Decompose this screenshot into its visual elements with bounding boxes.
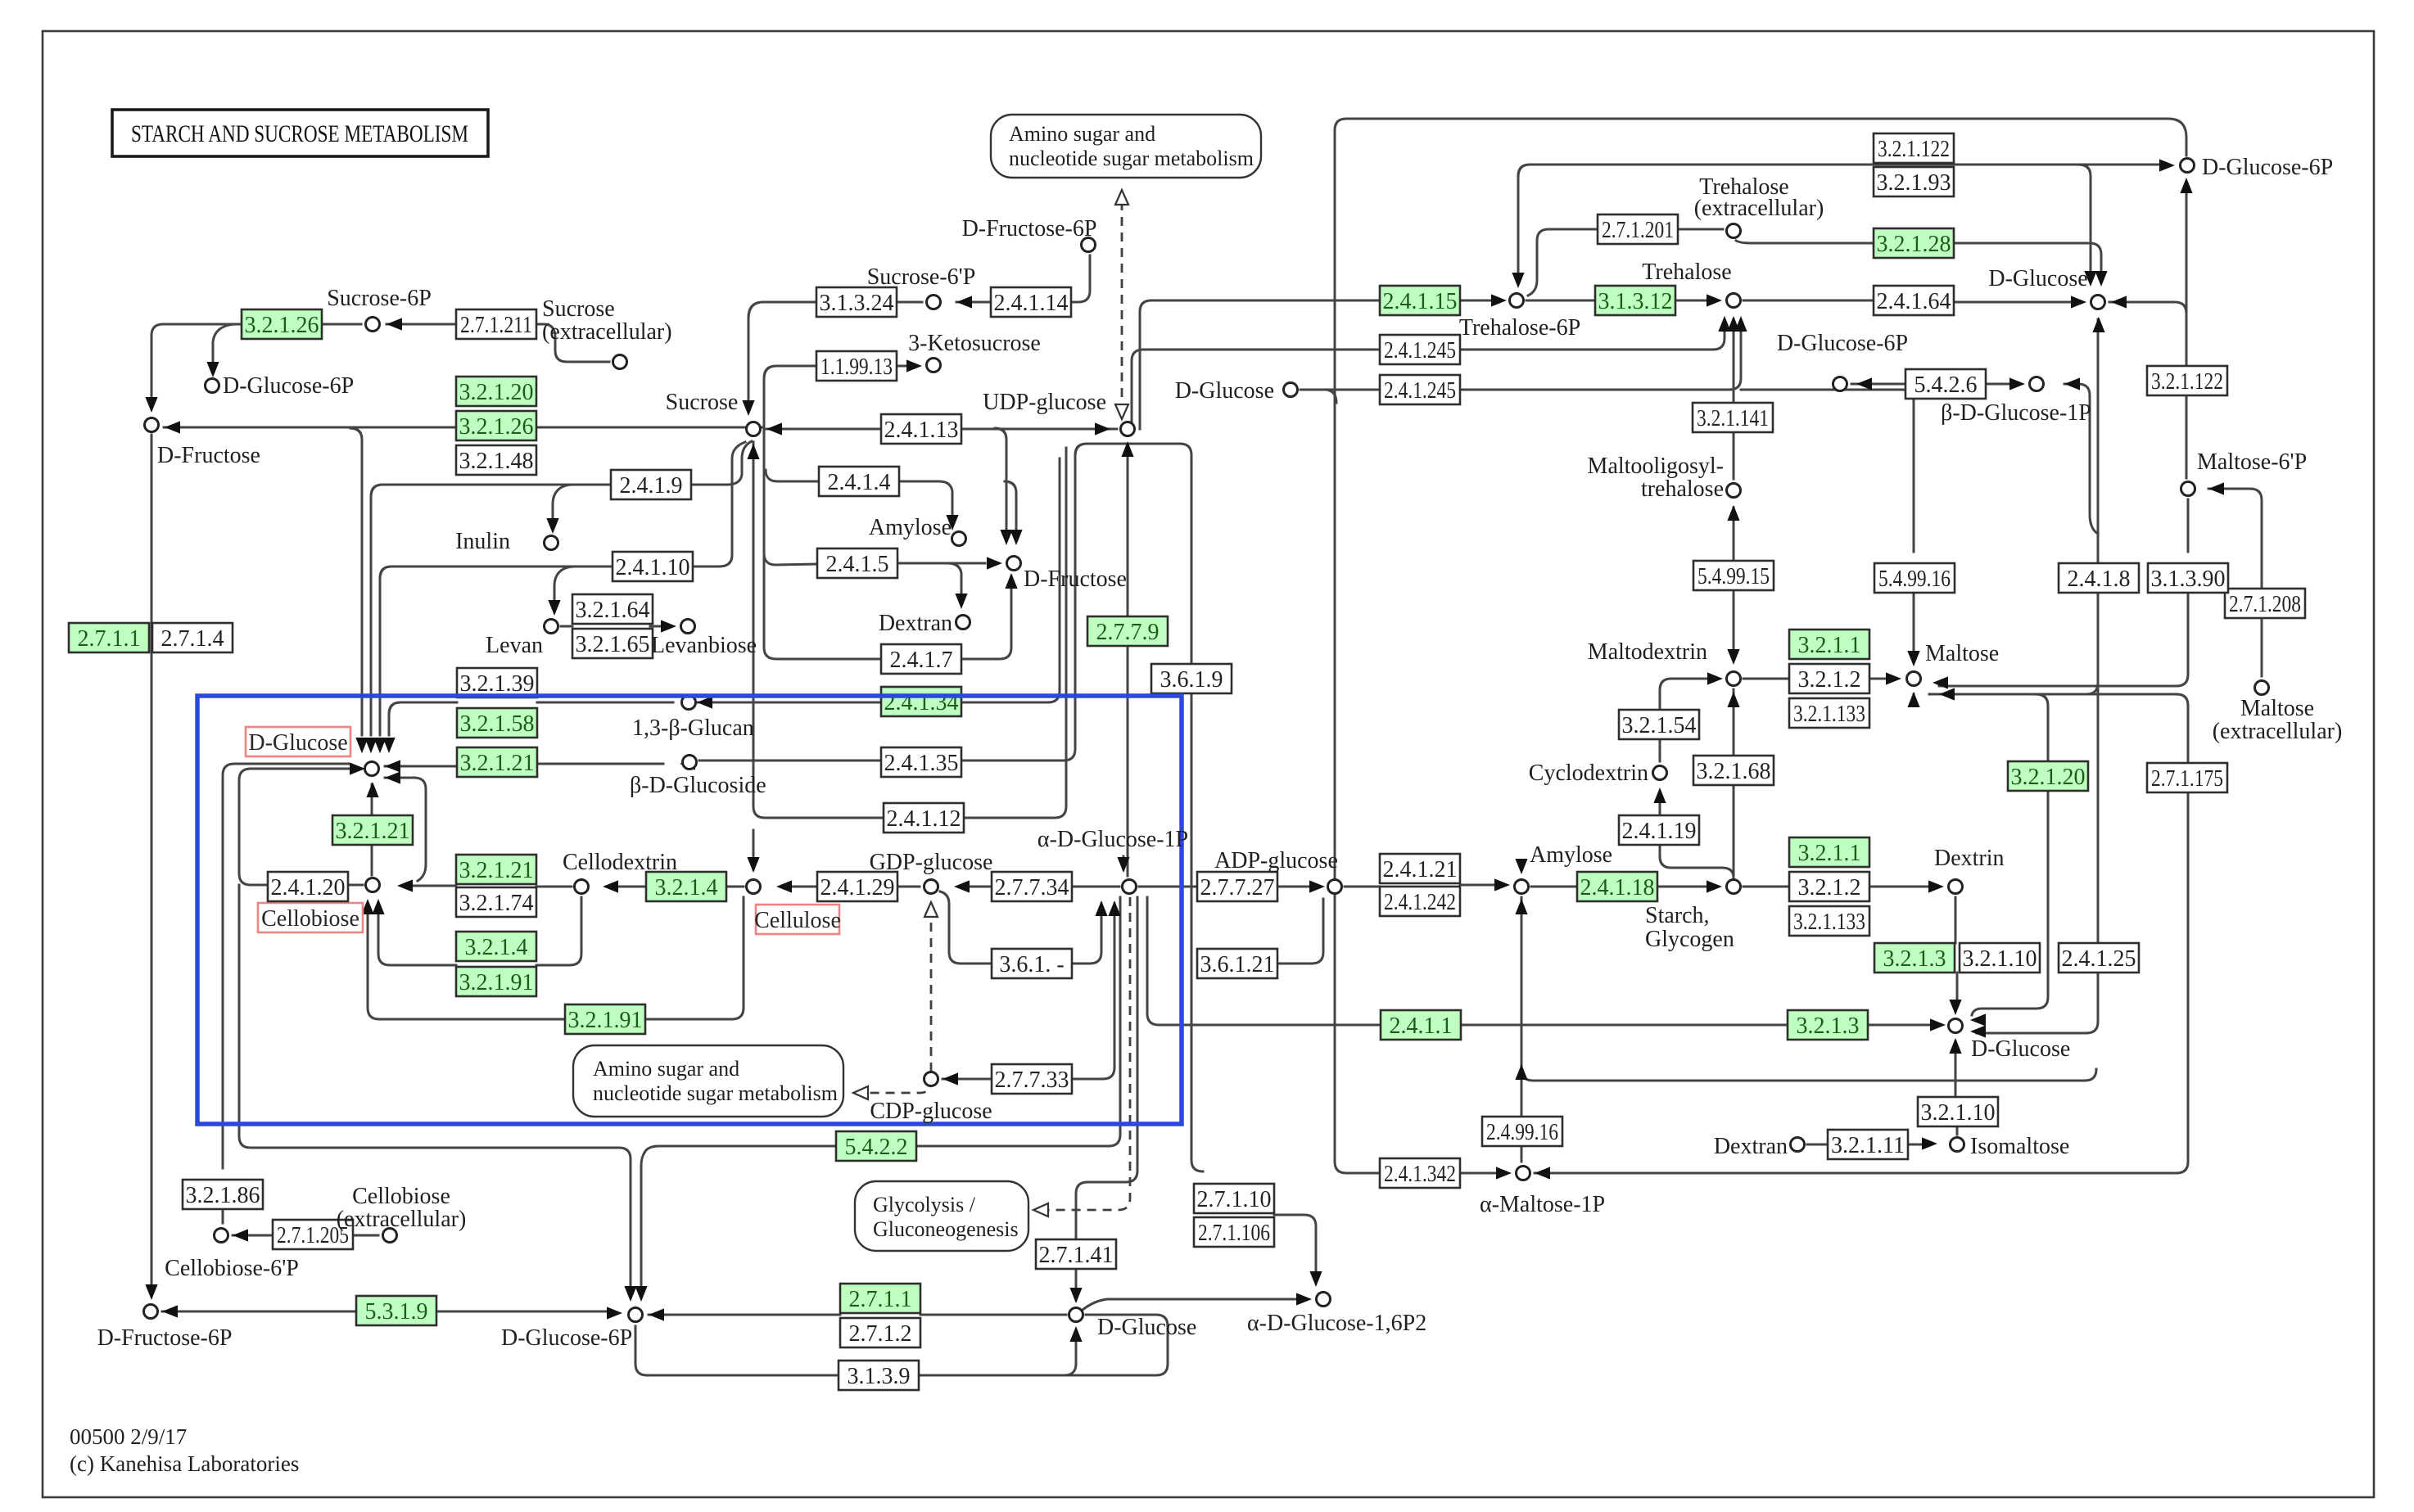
svg-text:5.3.1.9: 5.3.1.9: [365, 1299, 428, 1325]
wire: [1869, 678, 1885, 680]
compound node: [2255, 681, 2269, 695]
compound label box (red): [258, 903, 363, 932]
enzyme box 3.6.1.21: [1197, 949, 1277, 978]
svg-text:3.2.1.2: 3.2.1.2: [1798, 667, 1861, 693]
compound node: [1123, 880, 1137, 894]
pathway link box: [991, 115, 1261, 178]
svg-text:3.2.1.2: 3.2.1.2: [1798, 875, 1861, 900]
svg-text:D-Glucose-6P: D-Glucose-6P: [223, 373, 354, 399]
svg-text:2.4.1.13: 2.4.1.13: [884, 417, 959, 443]
arrowhead: [548, 600, 560, 616]
wire: [956, 301, 991, 304]
arrowhead: [1933, 676, 1948, 688]
svg-text:Dextran: Dextran: [879, 611, 952, 636]
enzyme box 3.6.1. -: [992, 949, 1072, 978]
wire: [2097, 319, 2100, 563]
wire: [1460, 329, 1725, 350]
wire: [1346, 1172, 1380, 1175]
arrowhead: [661, 620, 676, 632]
enzyme box 3.2.1.86: [183, 1180, 263, 1209]
arrowhead: [624, 1286, 636, 1302]
svg-text:3.2.1.1: 3.2.1.1: [1798, 841, 1861, 866]
arrowhead: [747, 444, 759, 459]
enzyme box 3.2.1.91: [565, 1004, 645, 1034]
svg-text:2.4.1.242: 2.4.1.242: [1384, 890, 1456, 915]
svg-text:D-Fructose-6P: D-Fructose-6P: [97, 1325, 233, 1351]
wire: [213, 324, 234, 365]
arrowhead: [364, 738, 377, 753]
svg-text:Amylose: Amylose: [869, 515, 952, 540]
wire: [389, 702, 457, 714]
svg-text:3.2.1.48: 3.2.1.48: [459, 449, 534, 474]
compound node: [144, 1305, 158, 1319]
wire: [764, 366, 816, 378]
enzyme box 2.4.1.342: [1380, 1158, 1460, 1188]
arrowhead: [1515, 1064, 1527, 1080]
enzyme box 3.2.1.3: [1874, 943, 1955, 973]
compound node: [1727, 880, 1741, 894]
wire: [2086, 593, 2098, 694]
arrowhead: [1907, 651, 1919, 666]
compound node: [952, 532, 966, 546]
arrowhead: [1949, 1038, 1961, 1054]
wire: [609, 886, 646, 888]
wire: [726, 886, 744, 888]
enzyme box 3.2.1.1: [1789, 630, 1869, 659]
wire: [378, 904, 456, 965]
compound node: [383, 1229, 397, 1243]
arrowhead: [1069, 1326, 1082, 1342]
wire: [691, 441, 752, 485]
wire: [239, 885, 631, 1287]
arrowhead: [2009, 377, 2025, 390]
enzyme box 2.7.1.211: [456, 309, 536, 339]
compound node: [1082, 238, 1096, 252]
svg-text:Inulin: Inulin: [455, 529, 510, 554]
wire: [379, 578, 382, 735]
arrowhead: [1970, 1025, 1986, 1037]
wire: [1075, 1269, 1078, 1300]
arrowhead: [1309, 880, 1325, 892]
enzyme box 2.4.1.18: [1577, 872, 1657, 901]
enzyme box 2.4.1.21: [1380, 854, 1460, 883]
wire: [388, 714, 391, 735]
wire: [436, 1311, 606, 1313]
svg-text:α-Maltose-1P: α-Maltose-1P: [1480, 1192, 1605, 1217]
svg-text:3.2.1.122: 3.2.1.122: [1878, 137, 1950, 162]
svg-text:β-D-Glucoside: β-D-Glucoside: [630, 773, 766, 798]
arrowhead: [373, 738, 386, 753]
arrowhead: [1707, 672, 1723, 684]
compound node: [1515, 880, 1529, 894]
compound node: [145, 418, 159, 432]
enzyme box 2.7.1.2: [840, 1318, 920, 1347]
svg-text:3.2.1.3: 3.2.1.3: [1883, 946, 1946, 972]
wire: [536, 324, 609, 362]
svg-text:2.4.1.64: 2.4.1.64: [1877, 289, 1951, 314]
wire: [1743, 678, 1789, 680]
svg-text:2.4.1.25: 2.4.1.25: [2062, 946, 2136, 972]
compound node: [681, 620, 695, 634]
svg-text:α-D-Glucose-1,6P2: α-D-Glucose-1,6P2: [1247, 1311, 1426, 1336]
compound node: [2181, 159, 2195, 173]
wire: [1977, 973, 2098, 1033]
svg-text:3.2.1.4: 3.2.1.4: [655, 875, 718, 900]
svg-text:2.4.1.342: 2.4.1.342: [1384, 1162, 1456, 1187]
arrowhead: [372, 899, 384, 914]
svg-text:3.2.1.64: 3.2.1.64: [576, 598, 650, 623]
enzyme box 3.2.1.54: [1619, 710, 1699, 739]
enzyme box 3.2.1.2: [1789, 872, 1869, 901]
svg-text:2.4.1.20: 2.4.1.20: [271, 875, 346, 900]
svg-text:1.1.99.13: 1.1.99.13: [820, 354, 893, 380]
enzyme box 2.7.1.1: [840, 1284, 920, 1313]
wire: [897, 301, 922, 304]
svg-text:D-Glucose: D-Glucose: [248, 730, 347, 756]
svg-text:2.7.7.34: 2.7.7.34: [995, 875, 1069, 900]
compound node: [927, 296, 941, 309]
enzyme box 2.4.1.5: [817, 548, 897, 578]
compound label box (red): [246, 727, 350, 756]
arrowhead: [956, 296, 972, 308]
wire: [1660, 679, 1707, 710]
svg-text:2.4.1.35: 2.4.1.35: [884, 751, 959, 776]
enzyme box 2.7.1.208: [2225, 589, 2305, 618]
wire: [1346, 119, 2186, 156]
svg-text:2.4.1.18: 2.4.1.18: [1580, 875, 1655, 900]
enzyme box 2.7.1.175: [2147, 763, 2227, 792]
svg-text:3-Ketosucrose: 3-Ketosucrose: [908, 331, 1041, 356]
arrowhead: [165, 421, 180, 433]
arrowhead: [603, 880, 618, 892]
arrowhead: [2084, 271, 2096, 287]
wire: [1659, 739, 1661, 761]
arrowhead: [943, 1072, 958, 1085]
svg-text:3.2.1.20: 3.2.1.20: [459, 380, 534, 405]
enzyme box 2.7.1.41: [1036, 1239, 1116, 1269]
svg-text:(extracellular): (extracellular): [2213, 719, 2343, 744]
svg-text:3.1.3.9: 3.1.3.9: [848, 1364, 911, 1389]
enzyme box 2.4.99.16: [1482, 1117, 1562, 1146]
svg-text:Sucrose-6'P: Sucrose-6'P: [867, 264, 976, 290]
wire: [1678, 228, 1723, 231]
wire: [222, 1209, 224, 1223]
wire: [693, 442, 745, 566]
wire: [1535, 1172, 2177, 1175]
wire: [1733, 785, 1735, 875]
arrowhead: [162, 1305, 178, 1317]
enzyme box 2.7.1.4: [152, 623, 233, 652]
wire: [1956, 1126, 1959, 1135]
enzyme box 2.7.7.34: [992, 872, 1072, 901]
arrowhead: [1121, 441, 1133, 457]
arrowhead: [1707, 294, 1722, 306]
svg-text:2.7.1.41: 2.7.1.41: [1039, 1243, 1114, 1268]
wire: [536, 897, 581, 965]
svg-text:5.4.99.16: 5.4.99.16: [1878, 566, 1951, 592]
svg-text:2.4.1.4: 2.4.1.4: [828, 470, 891, 495]
wire: [322, 323, 361, 326]
svg-text:Cellobiose: Cellobiose: [352, 1184, 450, 1209]
arrowhead: [1296, 1293, 1312, 1305]
enzyme box 3.2.1.20: [2008, 761, 2088, 791]
compound node: [1121, 422, 1135, 436]
arrowhead: [987, 557, 1002, 569]
wire: [2064, 384, 2098, 534]
compound node: [1949, 880, 1963, 894]
svg-text:2.4.99.16: 2.4.99.16: [1486, 1120, 1558, 1145]
wire: [1140, 300, 1380, 429]
svg-text:nucleotide sugar metabolism: nucleotide sugar metabolism: [1009, 147, 1254, 170]
svg-text:3.2.1.21: 3.2.1.21: [336, 819, 410, 844]
open arrowhead: [1115, 190, 1128, 205]
enzyme box 3.2.1.48: [456, 445, 536, 475]
svg-text:Levanbiose: Levanbiose: [651, 633, 757, 658]
wire: [1955, 1041, 1957, 1097]
compound node: [1951, 1138, 1964, 1152]
wire: [2097, 593, 2100, 943]
wire: [764, 553, 817, 565]
arrowhead: [2180, 178, 2192, 193]
enzyme box 2.7.1.106: [1194, 1217, 1274, 1247]
arrowhead: [145, 397, 157, 413]
compound node: [1727, 294, 1741, 308]
arrowhead: [366, 782, 378, 797]
wire: [641, 1153, 644, 1287]
svg-text:D-Glucose: D-Glucose: [1097, 1315, 1196, 1340]
svg-text:3.2.1.26: 3.2.1.26: [459, 414, 534, 440]
enzyme box 1.1.99.13: [816, 351, 897, 381]
compound node: [545, 620, 558, 634]
compound node: [629, 1308, 643, 1322]
wire: [920, 1314, 1066, 1316]
wire: [1851, 383, 1905, 386]
arrowhead: [1515, 899, 1527, 914]
svg-text:3.2.1.26: 3.2.1.26: [245, 313, 319, 338]
svg-text:Trehalose-6P: Trehalose-6P: [1459, 315, 1580, 341]
wire: [964, 448, 1066, 818]
arrowhead: [1886, 672, 1901, 684]
enzyme box 2.4.1.7: [881, 644, 961, 674]
svg-text:Maltooligosyl-: Maltooligosyl-: [1588, 454, 1724, 479]
svg-text:Maltose: Maltose: [1925, 641, 1999, 666]
enzyme box 5.4.99.15: [1693, 561, 1774, 590]
compound node: [215, 1229, 228, 1243]
wire: [1869, 886, 1928, 888]
enzyme box 3.1.3.24: [816, 287, 897, 317]
arrowhead: [1928, 880, 1944, 892]
wire: [897, 365, 906, 368]
svg-text:(c) Kanehisa Laboratories: (c) Kanehisa Laboratories: [70, 1451, 299, 1476]
wire: [1548, 228, 1598, 231]
enzyme box 5.3.1.9: [356, 1296, 436, 1325]
enzyme box 3.2.1.58: [457, 708, 537, 738]
wire: [554, 566, 575, 603]
wire: [1733, 590, 1735, 650]
arrowhead: [946, 515, 958, 530]
svg-text:D-Glucose: D-Glucose: [1988, 266, 2087, 291]
wire: [1076, 897, 1137, 1239]
svg-text:2.4.1.19: 2.4.1.19: [1622, 819, 1697, 844]
svg-text:Maltose: Maltose: [2240, 696, 2314, 721]
svg-text:3.2.1.11: 3.2.1.11: [1831, 1133, 1905, 1158]
wire: [1521, 897, 1523, 1117]
wire: [1986, 383, 2009, 386]
wire: [1191, 693, 1203, 1171]
arrowhead: [954, 880, 970, 892]
enzyme box 2.4.1.20: [268, 872, 348, 901]
compound node: [1833, 377, 1847, 391]
arrowhead: [385, 771, 400, 783]
svg-text:2.4.1.245: 2.4.1.245: [1384, 338, 1456, 363]
svg-text:5.4.99.15: 5.4.99.15: [1697, 564, 1770, 589]
wire: [1733, 508, 1735, 561]
svg-text:3.2.1.10: 3.2.1.10: [1963, 946, 2037, 972]
svg-text:3.2.1.74: 3.2.1.74: [459, 891, 534, 916]
wire: [2079, 165, 2091, 270]
enzyme box 2.7.7.33: [992, 1064, 1072, 1094]
svg-text:3.2.1.122: 3.2.1.122: [2151, 369, 2223, 395]
compound node: [927, 359, 941, 372]
arrowhead: [1010, 530, 1022, 545]
wire: [1335, 119, 1346, 1173]
svg-text:3.2.1.91: 3.2.1.91: [568, 1008, 643, 1033]
svg-text:2.7.1.211: 2.7.1.211: [460, 313, 532, 338]
arrowhead: [1907, 651, 1919, 666]
enzyme box 3.2.1.4: [646, 872, 726, 901]
svg-text:2.4.1.29: 2.4.1.29: [820, 875, 895, 900]
wire: [223, 764, 349, 1168]
wire: [1939, 593, 2188, 686]
wire: [1132, 350, 1380, 429]
wire: [753, 830, 755, 869]
arrowhead: [2092, 317, 2104, 332]
enzyme box 3.2.1.74: [456, 887, 536, 917]
enzyme box 3.2.1.64: [572, 594, 653, 624]
compound node: [1727, 672, 1741, 686]
svg-text:Trehalose: Trehalose: [1642, 260, 1731, 285]
svg-text:(extracellular): (extracellular): [1694, 196, 1824, 221]
wire: [1972, 791, 2048, 1015]
wire: [2109, 302, 2186, 478]
arrowhead: [233, 1229, 248, 1241]
arrowhead: [1069, 1288, 1082, 1303]
svg-text:3.2.1.54: 3.2.1.54: [1622, 713, 1697, 738]
wire: [1913, 593, 1915, 652]
enzyme box 3.2.1.11: [1828, 1130, 1908, 1159]
svg-text:D-Fructose: D-Fructose: [157, 443, 260, 468]
enzyme box 2.4.1.8: [2059, 563, 2139, 593]
compound node: [924, 880, 938, 894]
arrowhead: [1922, 1137, 1937, 1149]
wire: [1733, 319, 1735, 403]
svg-text:Cellobiose-6'P: Cellobiose-6'P: [165, 1256, 299, 1281]
wire: [748, 302, 816, 318]
enzyme box 3.2.1.3: [1788, 1010, 1868, 1040]
wire: [368, 904, 565, 1019]
enzyme box 5.4.99.16: [1874, 563, 1955, 593]
svg-text:3.2.1.65: 3.2.1.65: [576, 632, 650, 657]
svg-text:3.2.1.21: 3.2.1.21: [459, 858, 534, 883]
arrowhead: [1117, 857, 1129, 873]
wire: [961, 458, 1060, 702]
svg-text:Sucrose: Sucrose: [542, 296, 615, 322]
arrowhead: [955, 594, 967, 609]
svg-text:3.1.3.12: 3.1.3.12: [1598, 289, 1673, 314]
arrowhead: [385, 760, 400, 772]
open arrowhead: [1115, 404, 1128, 419]
title box: [112, 110, 488, 156]
svg-text:D-Glucose-6P: D-Glucose-6P: [501, 1325, 632, 1351]
arrowhead: [1535, 1167, 1550, 1179]
svg-text:Amino sugar and: Amino sugar and: [593, 1057, 739, 1081]
enzyme box 2.4.1.245: [1380, 375, 1460, 404]
wire: [897, 886, 920, 888]
compound node: [1510, 294, 1524, 308]
wire: [151, 324, 242, 399]
compound node: [747, 422, 761, 436]
arrowhead: [355, 738, 368, 753]
wire: [1327, 390, 1336, 403]
enzyme box 2.4.1.14: [991, 287, 1071, 317]
enzyme box 3.2.1.28: [1874, 228, 1954, 258]
svg-text:2.4.1.12: 2.4.1.12: [887, 806, 961, 832]
enzyme box 3.2.1.21: [456, 855, 536, 884]
arrowhead: [747, 857, 759, 873]
wire: [1460, 884, 1494, 887]
wire dashed: [863, 907, 931, 1093]
compound node: [956, 616, 970, 630]
svg-text:2.4.1.21: 2.4.1.21: [1383, 857, 1458, 882]
arrowhead: [776, 880, 792, 892]
svg-text:3.6.1.21: 3.6.1.21: [1200, 952, 1275, 977]
svg-text:Glycogen: Glycogen: [1645, 927, 1734, 952]
wire: [1277, 886, 1309, 888]
wire: [1072, 904, 1114, 1079]
enzyme box 3.2.1.133: [1789, 698, 1869, 728]
svg-text:2.4.1.15: 2.4.1.15: [1383, 289, 1458, 314]
arrowhead: [2208, 482, 2224, 494]
wire: [1807, 1144, 1828, 1146]
wire: [1460, 1172, 1495, 1175]
arrowhead: [766, 422, 782, 435]
wire: [371, 845, 373, 875]
svg-text:Cyclodextrin: Cyclodextrin: [1529, 761, 1648, 786]
enzyme box 3.2.1.21: [332, 815, 413, 845]
wire: [1954, 243, 2101, 270]
svg-text:trehalose: trehalose: [1641, 476, 1724, 502]
enzyme box 2.4.1.19: [1619, 815, 1699, 845]
arrowhead: [1718, 316, 1730, 332]
enzyme box 2.4.1.13: [881, 414, 961, 444]
svg-text:Cellobiose: Cellobiose: [261, 906, 359, 932]
enzyme box 3.1.3.90: [2148, 563, 2228, 593]
svg-text:2.7.1.4: 2.7.1.4: [161, 626, 224, 652]
svg-text:Glycolysis /: Glycolysis /: [873, 1193, 976, 1216]
arrowhead: [397, 879, 413, 891]
arrowhead: [1939, 688, 1955, 700]
compound node: [366, 878, 380, 892]
svg-text:D-Glucose-6P: D-Glucose-6P: [2202, 155, 2333, 180]
enzyme box 3.2.1.93: [1874, 167, 1954, 196]
compound node: [2091, 296, 2105, 309]
wire: [162, 1311, 356, 1313]
arrowhead: [649, 1308, 664, 1320]
compound node: [366, 318, 380, 332]
wire: [1075, 444, 1191, 664]
svg-text:Sucrose: Sucrose: [666, 390, 739, 415]
arrowhead: [1856, 377, 1872, 390]
